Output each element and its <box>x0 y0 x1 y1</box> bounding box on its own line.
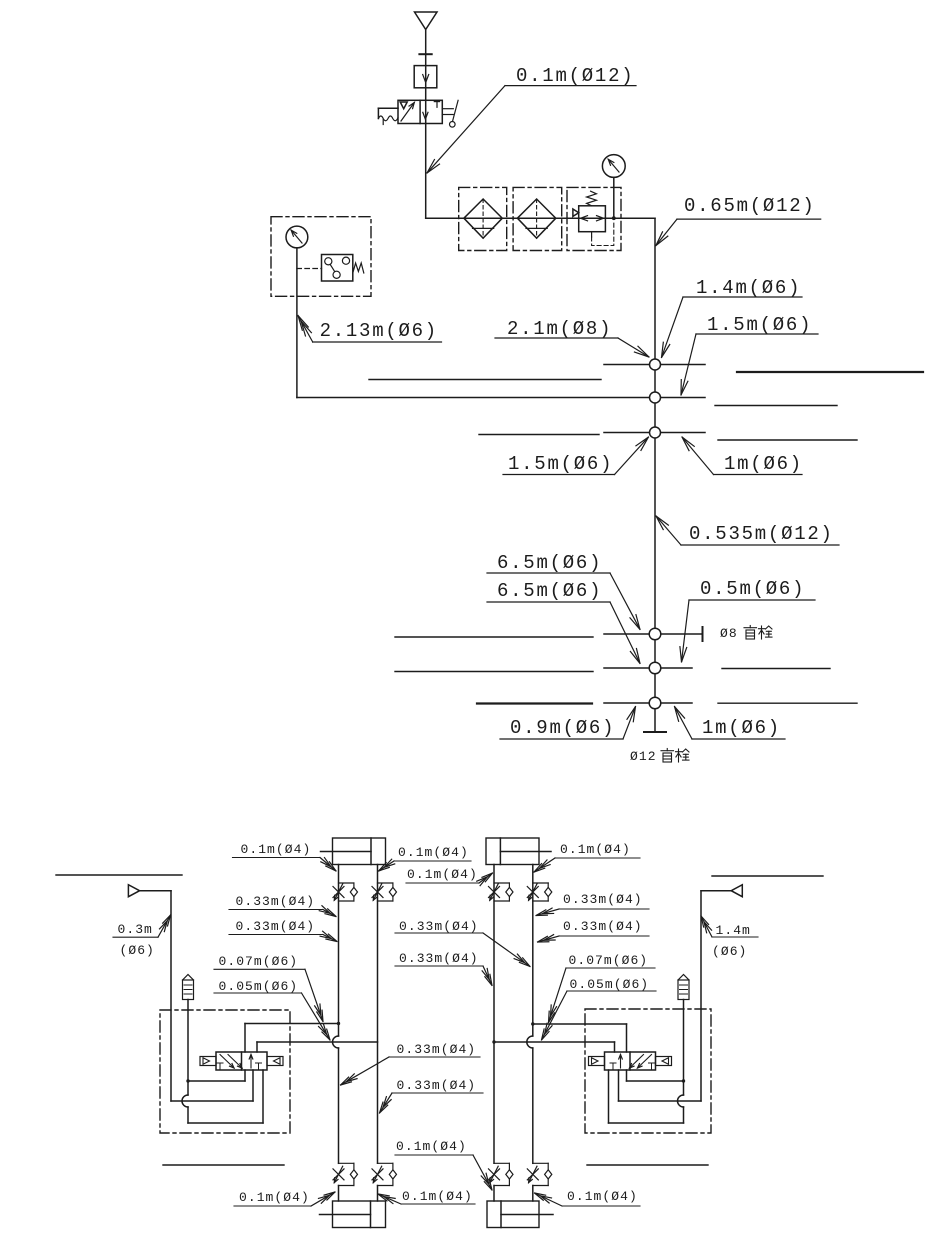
svg-text:0.33m(Ø4): 0.33m(Ø4) <box>399 919 479 934</box>
svg-text:Ø8: Ø8 <box>720 626 738 641</box>
svg-text:1.5m(Ø6): 1.5m(Ø6) <box>707 314 812 336</box>
svg-text:(Ø6): (Ø6) <box>712 944 747 959</box>
svg-text:6.5m(Ø6): 6.5m(Ø6) <box>497 580 602 602</box>
svg-text:1.4m(Ø6): 1.4m(Ø6) <box>696 277 801 299</box>
svg-text:0.1m(Ø4): 0.1m(Ø4) <box>567 1189 638 1204</box>
svg-text:0.1m(Ø12): 0.1m(Ø12) <box>516 65 634 87</box>
svg-text:(Ø6): (Ø6) <box>120 943 155 958</box>
svg-text:0.9m(Ø6): 0.9m(Ø6) <box>510 717 615 739</box>
svg-text:0.05m(Ø6): 0.05m(Ø6) <box>219 979 299 994</box>
svg-text:0.1m(Ø4): 0.1m(Ø4) <box>241 842 312 857</box>
svg-text:0.1m(Ø4): 0.1m(Ø4) <box>396 1139 467 1154</box>
svg-text:6.5m(Ø6): 6.5m(Ø6) <box>497 552 602 574</box>
svg-text:0.1m(Ø4): 0.1m(Ø4) <box>560 842 631 857</box>
svg-text:0.5m(Ø6): 0.5m(Ø6) <box>700 578 805 600</box>
svg-text:0.1m(Ø4): 0.1m(Ø4) <box>398 845 469 860</box>
svg-text:1m(Ø6): 1m(Ø6) <box>724 453 803 475</box>
svg-text:0.07m(Ø6): 0.07m(Ø6) <box>569 953 649 968</box>
svg-text:1m(Ø6): 1m(Ø6) <box>702 717 781 739</box>
svg-text:0.33m(Ø4): 0.33m(Ø4) <box>399 951 479 966</box>
svg-text:2.1m(Ø8): 2.1m(Ø8) <box>507 318 612 340</box>
svg-text:1.5m(Ø6): 1.5m(Ø6) <box>508 453 613 475</box>
svg-text:0.535m(Ø12): 0.535m(Ø12) <box>689 523 834 545</box>
svg-text:0.07m(Ø6): 0.07m(Ø6) <box>219 954 299 969</box>
svg-text:0.05m(Ø6): 0.05m(Ø6) <box>570 977 650 992</box>
svg-text:0.33m(Ø4): 0.33m(Ø4) <box>563 892 643 907</box>
svg-text:0.33m(Ø4): 0.33m(Ø4) <box>397 1042 477 1057</box>
svg-text:2.13m(Ø6): 2.13m(Ø6) <box>320 320 438 342</box>
svg-text:0.33m(Ø4): 0.33m(Ø4) <box>563 919 643 934</box>
svg-text:0.1m(Ø4): 0.1m(Ø4) <box>402 1189 473 1204</box>
svg-text:0.1m(Ø4): 0.1m(Ø4) <box>407 867 478 882</box>
svg-text:0.33m(Ø4): 0.33m(Ø4) <box>236 894 316 909</box>
svg-text:0.1m(Ø4): 0.1m(Ø4) <box>239 1190 310 1205</box>
svg-text:0.33m(Ø4): 0.33m(Ø4) <box>397 1078 477 1093</box>
svg-text:0.3m: 0.3m <box>118 922 153 937</box>
svg-text:1.4m: 1.4m <box>716 923 751 938</box>
svg-text:Ø12: Ø12 <box>630 749 657 764</box>
svg-text:0.33m(Ø4): 0.33m(Ø4) <box>236 919 316 934</box>
svg-text:0.65m(Ø12): 0.65m(Ø12) <box>684 195 816 217</box>
